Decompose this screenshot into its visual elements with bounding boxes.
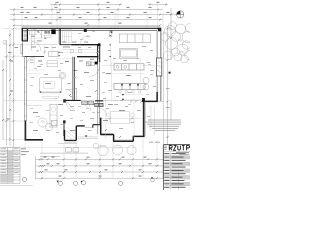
dining dim ticks xyxy=(109,100,137,119)
hall interior faint lines xyxy=(30,43,161,68)
bottom dimension row 5 ticks xyxy=(41,176,158,180)
interior wall x73.6 xyxy=(73,57,75,101)
wardrobe rect pair xyxy=(95,103,104,106)
porch steps xyxy=(58,137,98,144)
title block border xyxy=(164,145,191,190)
bath wall dark segments xyxy=(63,99,66,123)
dining chairs xyxy=(106,113,134,122)
small rect pair near wall y100 xyxy=(82,101,94,105)
wall stub block xyxy=(142,98,145,101)
porch window line xyxy=(85,126,93,128)
corridor texture xyxy=(61,49,97,52)
closet top-left of hall xyxy=(49,52,58,57)
corridor fixtures xyxy=(70,49,82,53)
interior wall vertical x60 xyxy=(59,29,61,45)
south-east wall run xyxy=(100,101,144,141)
kitchen upper counter xyxy=(114,64,144,70)
title block subtitle text xyxy=(176,152,189,154)
dark dot east xyxy=(169,72,171,74)
door arc bedroom1 xyxy=(26,57,34,65)
schedule table gray cells xyxy=(0,151,19,183)
left dimension ticks xyxy=(2,28,15,142)
west wall mid thin xyxy=(23,41,25,56)
door markers above bottom dims xyxy=(66,148,79,152)
left dimension column 3 xyxy=(9,30,11,146)
dining rug lines xyxy=(106,97,135,139)
hall fixtures xyxy=(30,31,52,38)
title block header rules xyxy=(164,151,191,190)
east side label dashes xyxy=(166,88,170,108)
black column A xyxy=(51,29,55,34)
wall y100.4 segment xyxy=(64,99,104,101)
south shrubs row xyxy=(38,118,136,156)
schedule table bottom-left xyxy=(0,148,20,184)
east inner wall L xyxy=(142,92,158,101)
hall faint shelf lines xyxy=(29,38,44,41)
masonry wall x98.6 upper xyxy=(98,45,100,63)
north wall column mid xyxy=(84,29,87,32)
interior wall horizontal y44.6 xyxy=(60,44,100,46)
bottom dimension row 1 xyxy=(40,153,88,156)
left dimension column 4 xyxy=(13,28,15,147)
top dimension row 3 xyxy=(10,13,177,15)
top dimension row 5 ticks xyxy=(13,23,161,27)
bottom dimension row 4 xyxy=(36,171,164,173)
black column C xyxy=(95,62,98,65)
dining dim line y118 xyxy=(101,117,141,119)
interior door arc x73.6 xyxy=(66,90,74,98)
top dimension row 4 xyxy=(10,19,163,21)
interior dim ticks scatter xyxy=(44,51,122,138)
top dimension row 5 xyxy=(13,24,160,26)
hall door arc upper-left xyxy=(32,42,42,52)
east wall faces xyxy=(157,31,161,101)
bottom dimension row 2 xyxy=(36,158,164,160)
bottom dimension row 5 xyxy=(36,177,164,179)
chimney block east xyxy=(156,58,161,76)
extension dashes x110 xyxy=(110,35,111,57)
top dimension row 4 ticks xyxy=(13,17,161,21)
north wall column right xyxy=(111,31,113,33)
bed posts xyxy=(40,91,61,92)
dining interior dim dashes xyxy=(122,94,143,102)
porch walls xyxy=(65,126,85,140)
left dimension column 2 xyxy=(6,40,8,145)
top dimension row 2 ticks xyxy=(13,7,159,11)
room label box left xyxy=(44,82,55,89)
title text RZUT xyxy=(169,146,189,151)
left room sofa xyxy=(47,61,58,67)
closet door posts xyxy=(59,52,60,56)
wall y101.4 thin continuation xyxy=(158,100,164,102)
kitchen stove appliances xyxy=(87,62,95,66)
east terrace line xyxy=(162,31,164,144)
living room sofa xyxy=(119,34,150,58)
extra faint label specks xyxy=(30,31,153,125)
bottom dimension row 2 ticks xyxy=(39,157,158,161)
bottom grid bubbles xyxy=(22,177,122,185)
dining chairs circles xyxy=(143,78,149,91)
title block small header cell xyxy=(164,146,167,150)
table bottom line xyxy=(0,185,33,187)
marker circle near block xyxy=(151,178,155,182)
hall label dashes xyxy=(8,36,94,71)
top extension lines xyxy=(14,3,163,28)
hall door arcs crossing xyxy=(66,100,91,111)
west wall upper thick xyxy=(21,28,23,41)
north-east corner block xyxy=(158,28,162,32)
interior tiny labels xyxy=(31,47,131,131)
south-east wall window lines xyxy=(101,102,146,140)
wardrobe lower-left xyxy=(50,104,57,127)
bar stools xyxy=(119,91,141,94)
hall dark dashes xyxy=(38,31,47,38)
west window sill xyxy=(21,44,23,54)
porch dark dash xyxy=(85,135,87,136)
schedule table text dashes xyxy=(1,148,30,173)
door arc on wall x98.6 xyxy=(99,109,107,117)
interior wall horizontal y56.6 left xyxy=(25,56,44,58)
bottom dimension end verticals xyxy=(36,146,164,179)
black column B xyxy=(98,43,101,46)
kitchen partition faint xyxy=(139,58,141,88)
top dimension row 3 ticks xyxy=(13,12,170,16)
bottom dimension row 3 xyxy=(36,165,164,167)
west window wall xyxy=(24,56,26,121)
scattered tiny labels xyxy=(30,46,156,133)
bottom extension lines xyxy=(25,138,157,178)
dresser line lower-left xyxy=(27,105,42,107)
bath west wall xyxy=(63,121,64,136)
bedroom faint lines xyxy=(28,70,46,74)
terrace edge lines right xyxy=(151,106,155,135)
dining south notch xyxy=(93,125,101,128)
bottom level markers (triangles) xyxy=(57,177,154,182)
bottom dimension row 4 ticks xyxy=(39,169,158,173)
right dimension ticks xyxy=(167,13,173,138)
bottom dimension row 3 ticks xyxy=(39,163,158,167)
left dimension column 1 xyxy=(2,60,4,140)
entry door arc top xyxy=(33,30,41,38)
right dimension column 2 xyxy=(170,8,172,120)
partition x76.8 xyxy=(74,88,77,100)
title block row text xyxy=(164,153,185,188)
top dimension row 1 ticks xyxy=(54,2,167,6)
stair side lines xyxy=(32,29,34,44)
porch hatch xyxy=(67,129,77,141)
left extension lines xyxy=(3,29,135,148)
kitchen mid faint line xyxy=(101,73,144,75)
kitchen west boundary faint xyxy=(111,62,113,100)
stair room rect xyxy=(63,30,72,43)
kitchen island xyxy=(114,83,145,89)
west wall lower thick xyxy=(24,121,26,141)
south-west room bottom wall xyxy=(25,139,43,141)
title block row cells gray xyxy=(171,156,191,186)
corridor labels above wall xyxy=(62,41,88,44)
armchair bedroom xyxy=(59,72,66,79)
top dimension row 2 xyxy=(10,9,163,11)
top dimension row 1 xyxy=(50,4,168,6)
tv cabinet xyxy=(110,31,112,37)
right dimension column 1 xyxy=(167,26,169,145)
north exterior wall xyxy=(22,26,160,30)
above title small text xyxy=(149,141,160,144)
notes text block xyxy=(145,120,181,131)
kitchen door arc xyxy=(89,67,99,77)
interior wall horizontal y56.6 right xyxy=(77,56,99,58)
bed left room xyxy=(39,77,61,98)
north arrow compass xyxy=(177,11,184,18)
dining table xyxy=(111,112,130,124)
hall gray boxes xyxy=(44,30,50,34)
terrace door line xyxy=(104,100,142,102)
staircase west xyxy=(23,29,28,41)
hall arc big xyxy=(80,35,90,45)
island dark separators xyxy=(121,84,139,86)
trees top right xyxy=(161,22,195,63)
interior wall x98.6 lower xyxy=(98,62,100,134)
